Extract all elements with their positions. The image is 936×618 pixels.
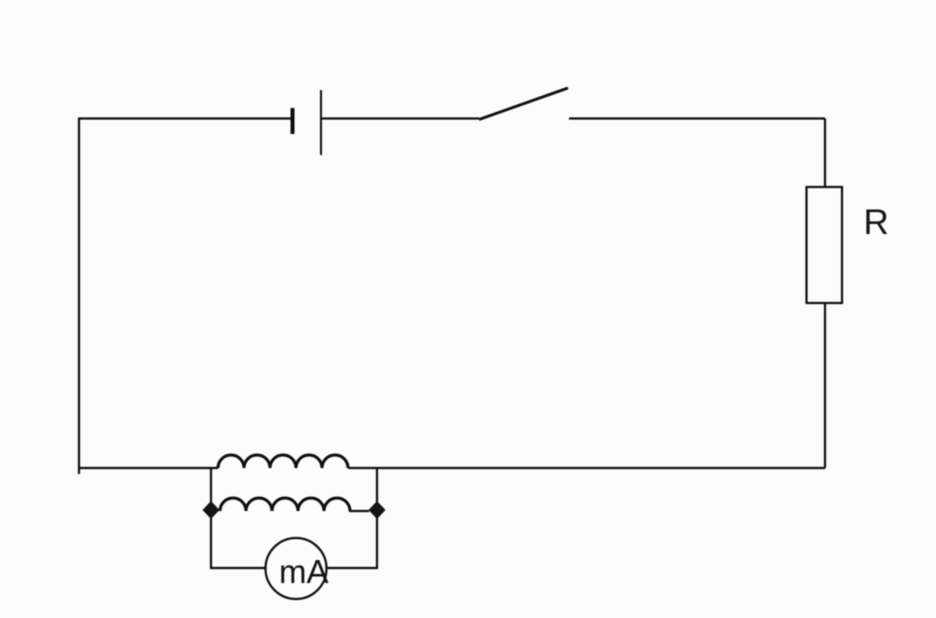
svg-text:mA: mA <box>279 553 329 590</box>
svg-text:R: R <box>864 203 889 242</box>
